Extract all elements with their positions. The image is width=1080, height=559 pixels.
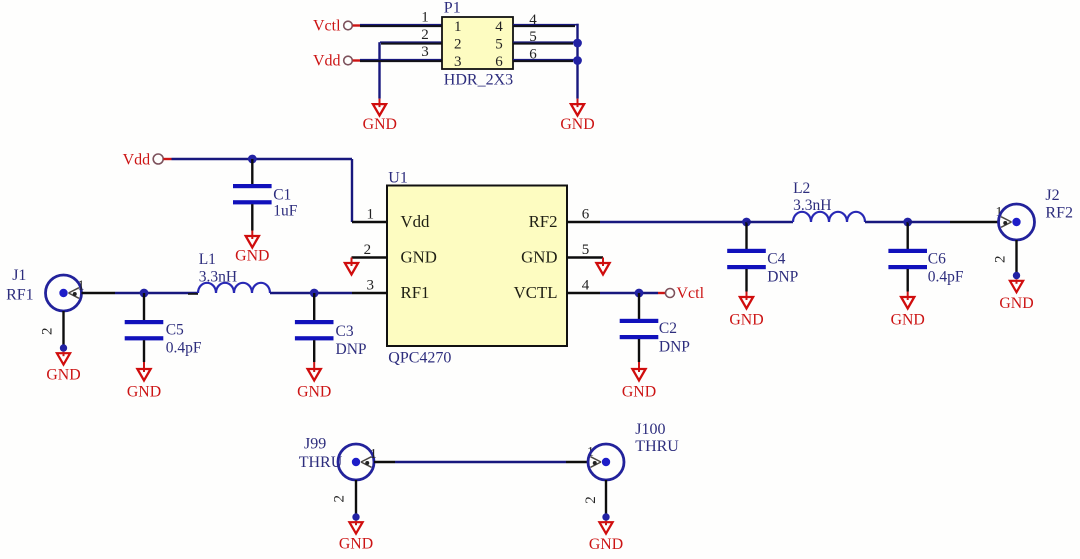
svg-text:C4: C4 <box>767 251 785 268</box>
pin number 3 (U1) <box>367 278 375 294</box>
wire L1 to U1 pin 3 <box>270 292 387 294</box>
ground GND (below C3) <box>297 362 331 401</box>
svg-text:DNP: DNP <box>659 339 690 356</box>
wire J2 pin 2 to ground <box>1013 240 1020 279</box>
header P1 HDR_2X3 <box>442 0 513 88</box>
junction at P1 pin 6 rail <box>573 56 582 65</box>
svg-text:6: 6 <box>582 206 590 222</box>
ground GND (below P1 pin 2) <box>363 99 397 133</box>
ground GND (below J100) <box>589 521 623 553</box>
svg-text:L1: L1 <box>199 251 216 268</box>
svg-text:1: 1 <box>370 447 377 462</box>
svg-text:GND: GND <box>891 312 925 329</box>
svg-text:DNP: DNP <box>336 341 367 358</box>
svg-text:Vdd: Vdd <box>401 212 431 231</box>
pin number 6 (U1) <box>582 206 590 222</box>
svg-text:4: 4 <box>529 12 537 28</box>
svg-text:GND: GND <box>297 384 331 401</box>
svg-text:3.3nH: 3.3nH <box>199 269 237 286</box>
wire P1 pin 5 <box>513 42 578 43</box>
capacitor C2 DNP <box>620 293 690 362</box>
pin number 2 (U1) <box>364 242 372 258</box>
svg-text:L2: L2 <box>793 180 810 197</box>
svg-text:GND: GND <box>622 384 656 401</box>
pin number 1 (J2) <box>996 205 1003 220</box>
svg-text:2: 2 <box>364 242 372 258</box>
pin number 3 (P1 left) <box>421 44 429 60</box>
svg-text:J1: J1 <box>12 267 26 284</box>
wire J100 pin 2 to ground <box>602 480 609 521</box>
junction RF1 net at C5 <box>140 289 149 298</box>
svg-text:Vctl: Vctl <box>677 285 705 302</box>
svg-text:RF1: RF1 <box>6 287 34 304</box>
svg-text:Vdd: Vdd <box>123 151 151 168</box>
wire Vctl to P1 pin 1 <box>360 25 442 26</box>
wire P1 pin 4 <box>513 25 579 26</box>
wire J1 to RF1 net <box>82 292 199 295</box>
wire Vdd to P1 pin 3 <box>360 60 442 61</box>
svg-text:C6: C6 <box>928 251 946 268</box>
svg-text:GND: GND <box>363 116 397 133</box>
wire Vdd net to U1 pin 1 <box>172 159 388 222</box>
ground GND (below J2) <box>999 279 1033 312</box>
svg-text:THRU: THRU <box>635 438 679 455</box>
svg-text:C3: C3 <box>336 323 354 340</box>
svg-text:1uF: 1uF <box>273 202 298 219</box>
wire P1 pin 2 to GND rail <box>380 42 443 98</box>
ground GND (below C6) <box>891 292 925 329</box>
pin number 1 (J99) <box>370 447 377 462</box>
svg-text:1: 1 <box>454 19 462 35</box>
svg-text:GND: GND <box>235 248 269 265</box>
svg-text:1: 1 <box>367 206 375 222</box>
svg-text:5: 5 <box>529 29 537 45</box>
svg-text:2: 2 <box>583 496 599 504</box>
connector J1 RF1 <box>6 267 81 311</box>
svg-text:2: 2 <box>40 328 56 336</box>
svg-text:2: 2 <box>421 27 429 43</box>
junction at P1 pin 5 rail <box>573 39 582 48</box>
svg-text:6: 6 <box>529 47 537 63</box>
svg-text:QPC4270: QPC4270 <box>388 349 451 366</box>
port Vdd (main) <box>123 151 172 168</box>
junction RF2 net at C4 <box>742 218 751 227</box>
capacitor C6 0.4pF <box>888 222 964 292</box>
svg-text:GND: GND <box>401 248 437 267</box>
svg-text:RF2: RF2 <box>529 212 558 231</box>
svg-text:2: 2 <box>454 37 462 53</box>
pin number 1 (P1 left) <box>421 10 429 26</box>
svg-text:RF2: RF2 <box>1045 205 1073 222</box>
junction Vdd net at C1 <box>248 155 257 164</box>
ground GND (U1 pin 5) <box>596 258 609 275</box>
svg-text:6: 6 <box>495 54 503 70</box>
wire U1 pin 5 stub <box>567 256 603 258</box>
ground GND (below C1) <box>235 231 269 265</box>
capacitor C4 DNP <box>727 222 798 292</box>
svg-text:C5: C5 <box>166 322 184 339</box>
svg-text:GND: GND <box>729 312 763 329</box>
junction RF2 net at C6 <box>903 218 912 227</box>
ground GND (U1 pin 2) <box>345 258 358 275</box>
svg-text:RF1: RF1 <box>401 283 430 302</box>
pin number 4 (U1) <box>582 278 590 294</box>
svg-text:J99: J99 <box>304 436 326 453</box>
svg-text:Vctl: Vctl <box>313 18 341 35</box>
svg-text:P1: P1 <box>444 0 461 17</box>
svg-text:3: 3 <box>454 54 462 70</box>
svg-text:THRU: THRU <box>299 454 343 471</box>
wire J1 pin 2 to ground <box>60 311 67 352</box>
wire U1 pin 4 VCTL net <box>567 292 658 294</box>
svg-text:4: 4 <box>495 19 503 35</box>
port Vctl (right) <box>658 285 705 302</box>
pin number 2 (J100) <box>583 496 599 504</box>
svg-text:J2: J2 <box>1045 187 1059 204</box>
svg-text:5: 5 <box>495 37 503 53</box>
pin number 2 (P1 left) <box>421 27 429 43</box>
wire C4 to L2 <box>747 221 794 223</box>
pin number 5 (P1 right) <box>529 29 537 45</box>
svg-text:2: 2 <box>992 256 1008 264</box>
svg-text:U1: U1 <box>388 170 408 187</box>
ground GND (below C2) <box>622 362 656 401</box>
svg-text:Vdd: Vdd <box>313 53 341 70</box>
pin number 1 (J100) <box>587 445 594 460</box>
svg-text:3: 3 <box>367 278 375 294</box>
svg-text:VCTL: VCTL <box>514 283 558 302</box>
pin number 2 (J2) <box>992 256 1008 264</box>
svg-text:GND: GND <box>127 384 161 401</box>
ground GND (below C4) <box>729 292 763 329</box>
svg-text:J100: J100 <box>635 421 665 438</box>
svg-text:GND: GND <box>521 248 557 267</box>
junction RF1 net at C3 <box>310 289 319 298</box>
ground GND (below C5) <box>127 362 161 401</box>
pin number 1 (U1) <box>367 206 375 222</box>
capacitor C3 DNP <box>295 293 367 362</box>
pin number 1 (J1) <box>78 279 85 294</box>
inductor L2 3.3nH <box>793 180 865 222</box>
ground GND (below J1) <box>46 352 80 384</box>
svg-text:GND: GND <box>589 536 623 553</box>
svg-text:0.4pF: 0.4pF <box>928 269 964 286</box>
svg-text:HDR_2X3: HDR_2X3 <box>444 71 513 88</box>
port Vctl (top) <box>313 18 360 35</box>
wire J99 pin 2 to ground <box>352 480 359 521</box>
svg-text:4: 4 <box>582 278 590 294</box>
svg-text:C1: C1 <box>273 186 291 203</box>
svg-text:1: 1 <box>78 279 85 294</box>
connector J100 THRU <box>588 421 679 480</box>
connector J2 RF2 <box>999 187 1073 240</box>
svg-text:3: 3 <box>421 44 429 60</box>
ground GND (right of P1) <box>560 99 594 133</box>
ground GND (below J99) <box>339 521 373 553</box>
svg-text:1: 1 <box>421 10 429 26</box>
IC U1 QPC4270 <box>387 170 567 367</box>
svg-text:C2: C2 <box>659 320 677 337</box>
pin number 2 (J99) <box>331 495 347 503</box>
svg-text:GND: GND <box>999 295 1033 312</box>
svg-text:2: 2 <box>331 495 347 503</box>
svg-text:0.4pF: 0.4pF <box>166 340 202 357</box>
svg-text:5: 5 <box>582 242 590 258</box>
wire C6 to J2 <box>908 221 999 223</box>
svg-text:GND: GND <box>46 367 80 384</box>
connector J99 THRU <box>299 436 374 481</box>
wire P1 pin 6 <box>513 60 578 61</box>
inductor L1 3.3nH <box>198 251 270 293</box>
pin number 2 (J1) <box>40 328 56 336</box>
svg-text:GND: GND <box>339 536 373 553</box>
junction VCTL net at C2 <box>635 289 644 298</box>
port Vdd (top) <box>313 53 360 70</box>
svg-text:GND: GND <box>560 116 594 133</box>
pin number 6 (P1 right) <box>529 47 537 63</box>
wire J99 to J100 <box>374 461 588 463</box>
pin number 5 (U1) <box>582 242 590 258</box>
wire L2 to C6 <box>865 221 908 223</box>
pin number 4 (P1 right) <box>529 12 537 28</box>
svg-text:3.3nH: 3.3nH <box>793 197 831 214</box>
capacitor C5 0.4pF <box>125 293 202 362</box>
wire U1 pin 6 RF2 net <box>567 221 747 223</box>
svg-text:DNP: DNP <box>767 269 798 286</box>
wire U1 pin 2 stub <box>352 256 388 258</box>
wire GND rail right of P1 <box>576 24 578 99</box>
capacitor C1 1uF <box>233 159 298 231</box>
